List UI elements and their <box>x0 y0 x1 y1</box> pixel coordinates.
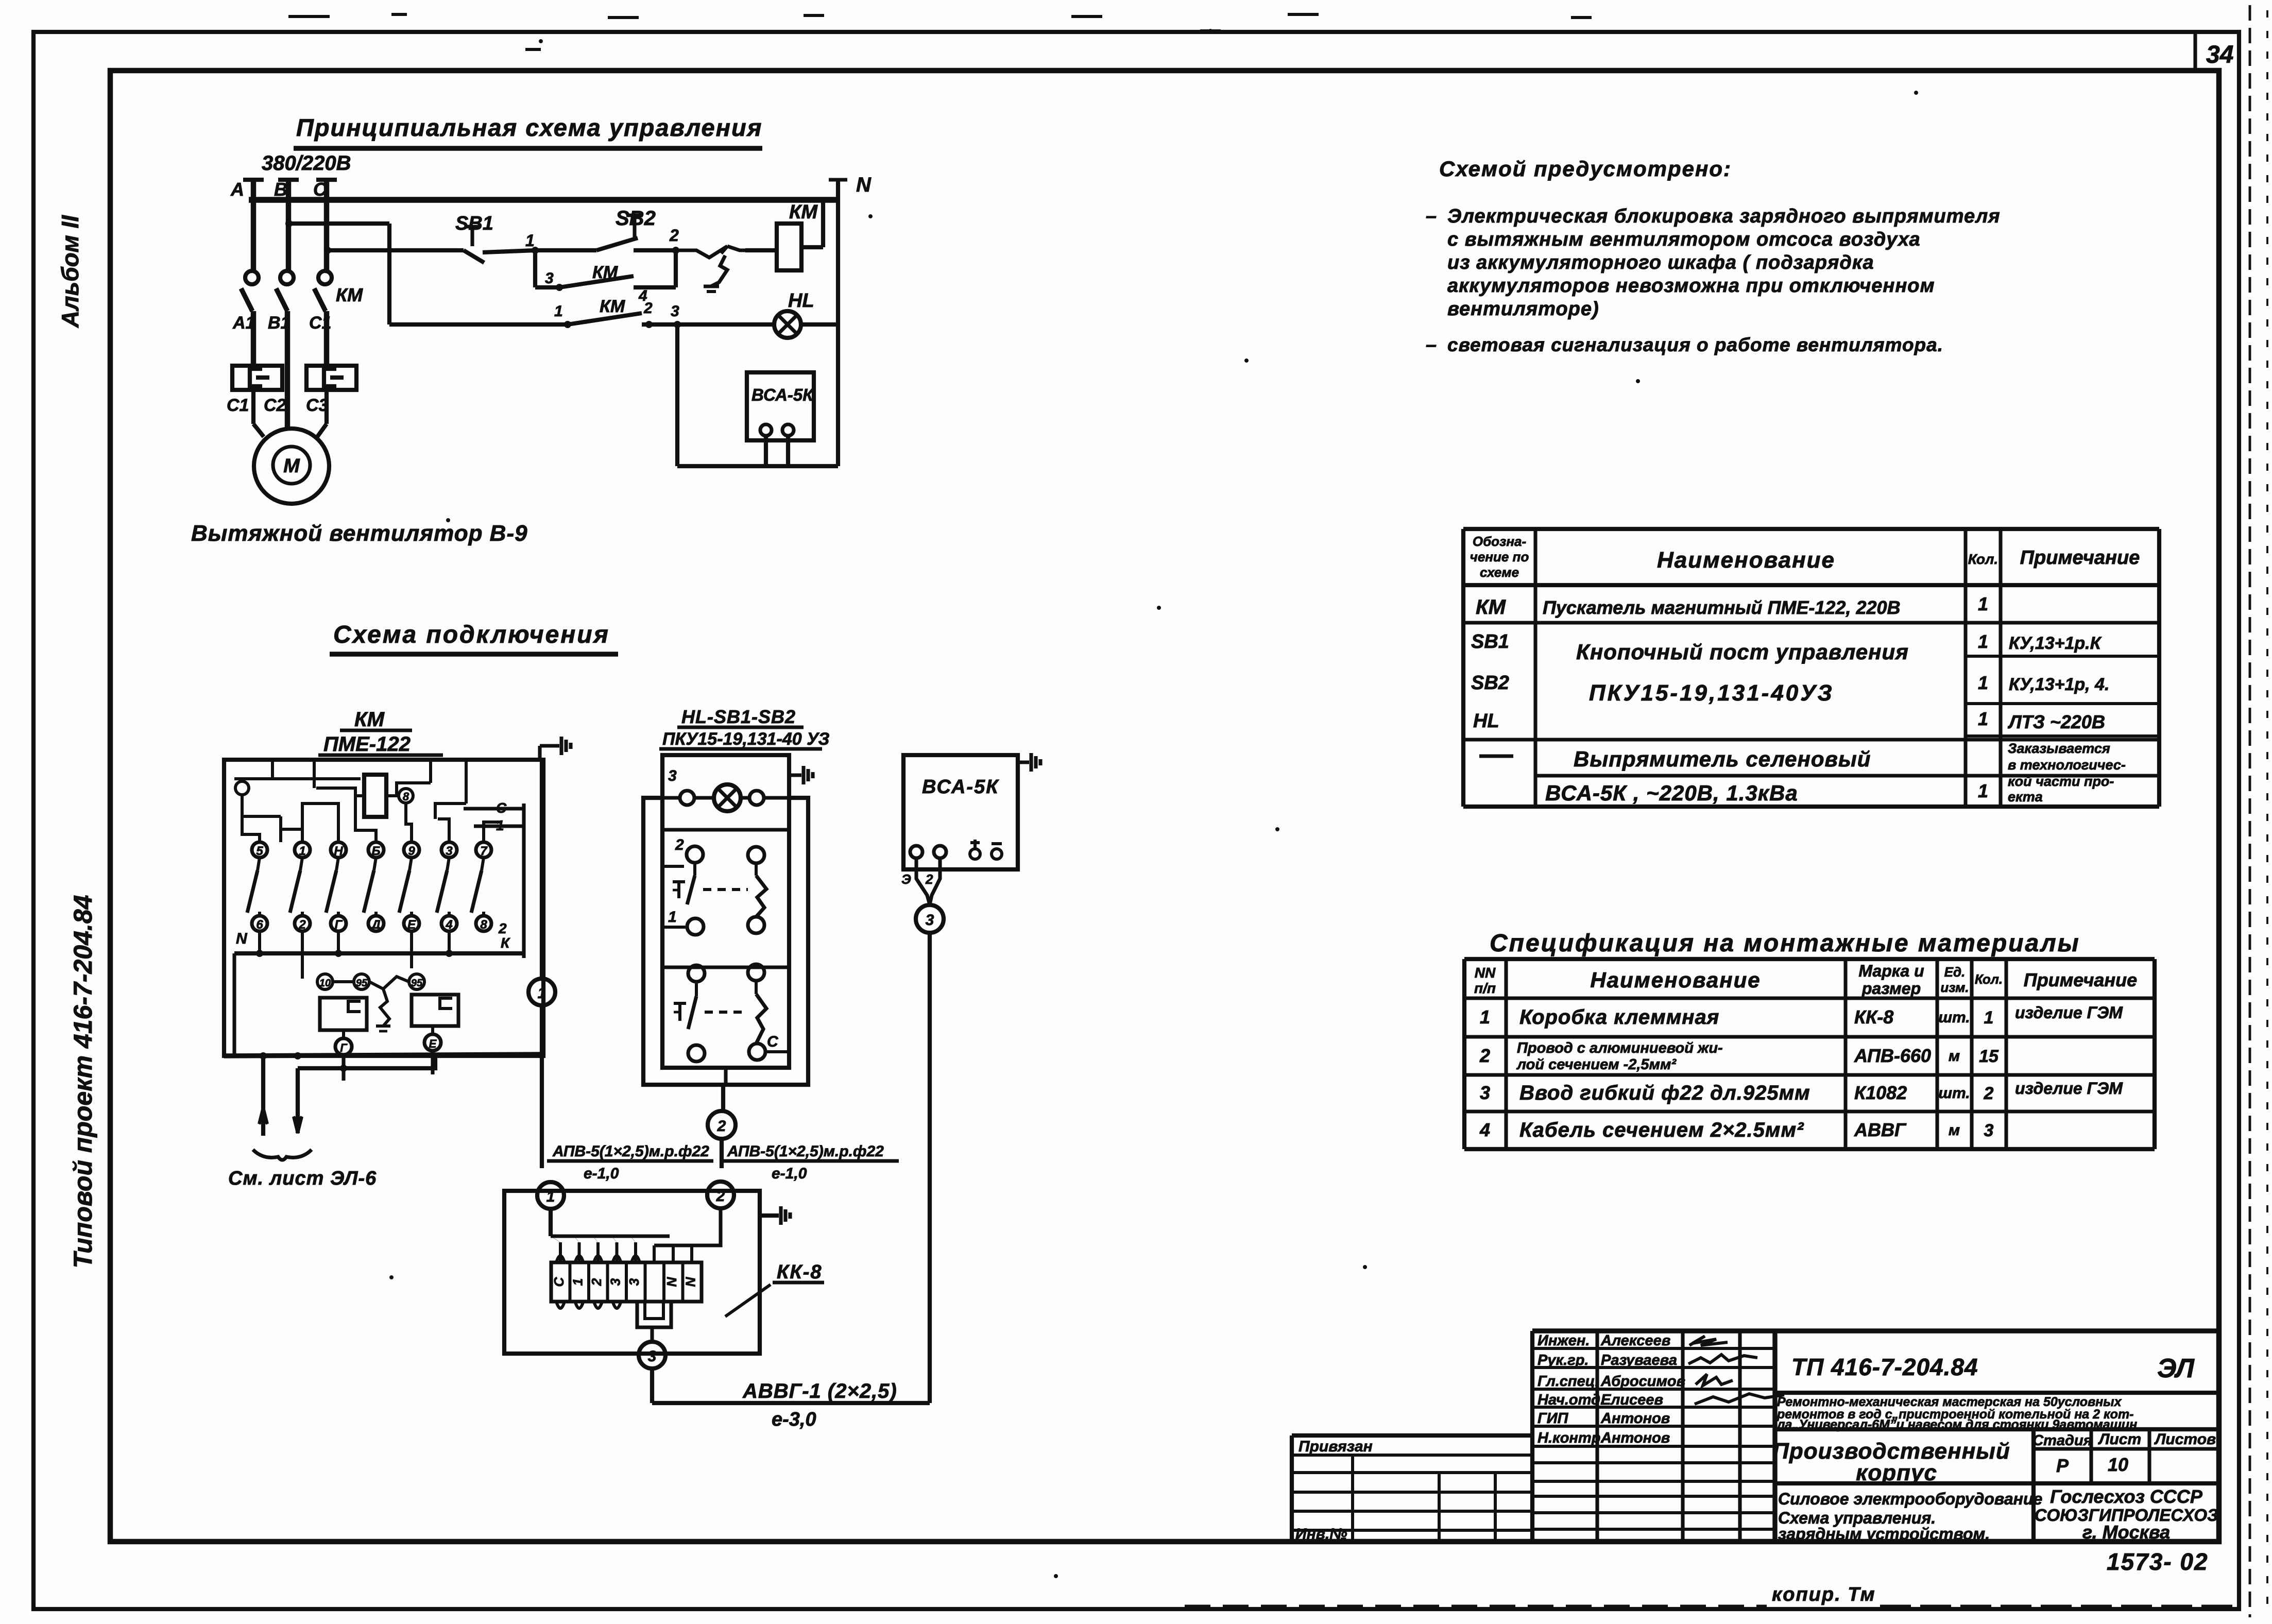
svg-text:Заказывается: Заказывается <box>2008 741 2110 756</box>
svg-text:Провод с алюминиевой жи-: Провод с алюминиевой жи- <box>1517 1040 1723 1056</box>
svg-text:изделие ГЭМ: изделие ГЭМ <box>2015 1003 2123 1022</box>
svg-text:ВСА-5К: ВСА-5К <box>922 776 999 798</box>
svg-text:Кнопочный пост управления: Кнопочный пост управления <box>1576 640 1909 664</box>
svg-text:ВСА-5К , ~220В, 1.3кВа: ВСА-5К , ~220В, 1.3кВа <box>1545 781 1798 805</box>
svg-text:N: N <box>856 174 872 196</box>
svg-text:Е: Е <box>429 1037 437 1050</box>
svg-text:3: 3 <box>926 912 934 929</box>
svg-text:SB1: SB1 <box>1471 631 1509 653</box>
svg-text:с вытяжным вентилятором отсо: с вытяжным вентилятором отсоса воздуха <box>1447 229 1921 250</box>
svg-text:К1082: К1082 <box>1854 1082 1907 1103</box>
svg-text:из аккумуляторного шкафа ( п: из аккумуляторного шкафа ( подзарядка <box>1447 252 1874 273</box>
svg-text:3: 3 <box>446 844 453 858</box>
svg-text:Примечание: Примечание <box>2020 547 2140 569</box>
svg-text:ПКУ15-19,131-40УЗ: ПКУ15-19,131-40УЗ <box>1589 680 1834 706</box>
svg-text:1: 1 <box>1978 780 1988 801</box>
svg-text:2: 2 <box>1984 1084 1994 1103</box>
svg-text:95: 95 <box>411 978 423 989</box>
svg-text:ТП 416-7-204.84: ТП 416-7-204.84 <box>1791 1354 1978 1380</box>
svg-text:аккумуляторов невозможна при: аккумуляторов невозможна при отключенном <box>1447 275 1935 297</box>
svg-text:Алексеев: Алексеев <box>1600 1332 1670 1349</box>
svg-text:2: 2 <box>589 1278 604 1286</box>
svg-text:С1: С1 <box>309 313 331 333</box>
svg-text:Инжен.: Инжен. <box>1538 1332 1590 1349</box>
svg-text:КК-8: КК-8 <box>777 1261 823 1283</box>
svg-text:1: 1 <box>525 231 535 250</box>
svg-text:HL-SB1-SB2: HL-SB1-SB2 <box>681 706 796 727</box>
svg-text:АПВ-5(1×2,5)м.р.ф22: АПВ-5(1×2,5)м.р.ф22 <box>552 1143 709 1160</box>
svg-text:г. Москва: г. Москва <box>2082 1522 2170 1543</box>
svg-text:Инв.№: Инв.№ <box>1295 1526 1347 1543</box>
svg-text:Альбом II: Альбом II <box>57 215 83 328</box>
svg-text:ПМЕ-122: ПМЕ-122 <box>323 733 411 756</box>
svg-text:Э: Э <box>901 871 911 887</box>
svg-text:ВСА-5К: ВСА-5К <box>751 385 814 404</box>
svg-text:N: N <box>683 1276 698 1287</box>
svg-text:SB1: SB1 <box>455 213 493 234</box>
svg-text:Выпрямитель селеновый: Выпрямитель селеновый <box>1574 747 1871 771</box>
svg-text:Обозна-: Обозна- <box>1473 534 1526 549</box>
svg-text:6: 6 <box>256 918 263 932</box>
svg-text:ПКУ15-19,131-40 УЗ: ПКУ15-19,131-40 УЗ <box>662 729 830 749</box>
svg-text:Наименование: Наименование <box>1657 548 1835 573</box>
svg-text:8: 8 <box>480 918 487 932</box>
svg-text:Кол.: Кол. <box>1968 551 1998 567</box>
svg-text:ла„Универсал-6М”и навесом для: ла„Универсал-6М”и навесом для стоянки 9а… <box>1776 1417 2137 1432</box>
svg-text:10: 10 <box>2108 1454 2128 1475</box>
svg-text:Р: Р <box>2056 1455 2069 1476</box>
svg-text:Примечание: Примечание <box>2024 969 2137 990</box>
svg-text:е-3,0: е-3,0 <box>772 1409 816 1430</box>
svg-text:ЭЛ: ЭЛ <box>2157 1354 2195 1383</box>
svg-text:Антонов: Антонов <box>1600 1410 1670 1427</box>
svg-text:Елисеев: Елисеев <box>1601 1392 1663 1408</box>
svg-text:Г: Г <box>340 1041 348 1054</box>
svg-text:1: 1 <box>1978 672 1988 693</box>
svg-text:2: 2 <box>298 918 306 932</box>
svg-text:Лист: Лист <box>2098 1431 2141 1448</box>
svg-text:95: 95 <box>356 978 368 989</box>
svg-text:Марка и: Марка и <box>1858 962 1924 980</box>
svg-text:в технологичес-: в технологичес- <box>2008 757 2126 773</box>
svg-text:С2: С2 <box>264 396 286 415</box>
svg-text:Наименование: Наименование <box>1590 968 1761 992</box>
svg-text:1: 1 <box>546 1188 555 1205</box>
svg-text:SB2: SB2 <box>1471 672 1509 694</box>
svg-text:м: м <box>1949 1122 1960 1139</box>
svg-text:Коробка клеммная: Коробка клеммная <box>1519 1006 1719 1029</box>
svg-text:АПВ-660: АПВ-660 <box>1854 1045 1931 1066</box>
svg-text:Д: Д <box>370 918 380 932</box>
svg-text:К: К <box>501 935 510 951</box>
svg-text:С: С <box>551 1276 567 1287</box>
svg-text:2: 2 <box>498 920 507 936</box>
svg-text:АПВ-5(1×2,5)м.р.ф22: АПВ-5(1×2,5)м.р.ф22 <box>727 1143 884 1160</box>
svg-text:3: 3 <box>648 1348 657 1365</box>
svg-text:N: N <box>236 930 248 947</box>
svg-text:1: 1 <box>554 303 563 320</box>
svg-text:Н.контр.: Н.контр. <box>1538 1430 1605 1446</box>
svg-text:3: 3 <box>1984 1121 1994 1140</box>
svg-text:См. лист ЭЛ-6: См. лист ЭЛ-6 <box>228 1168 377 1189</box>
svg-text:АВВГ: АВВГ <box>1854 1119 1907 1140</box>
svg-text:Типовой проект 416-7-204.84: Типовой проект 416-7-204.84 <box>69 895 97 1269</box>
svg-text:Нач.отд.: Нач.отд. <box>1538 1392 1604 1408</box>
svg-text:1: 1 <box>1978 593 1988 614</box>
svg-text:2: 2 <box>675 836 684 853</box>
svg-text:Привязан: Привязан <box>1299 1438 1373 1455</box>
svg-text:1: 1 <box>570 1278 586 1286</box>
svg-text:размер: размер <box>1861 979 1921 998</box>
svg-text:Абросимов: Абросимов <box>1600 1373 1685 1390</box>
svg-text:2: 2 <box>716 1188 725 1205</box>
svg-text:2: 2 <box>925 871 933 887</box>
svg-text:3: 3 <box>668 767 677 784</box>
svg-text:380/220В: 380/220В <box>262 152 351 175</box>
svg-text:3: 3 <box>545 270 554 287</box>
svg-text:КМ: КМ <box>1476 596 1507 619</box>
svg-text:С1: С1 <box>227 396 249 415</box>
svg-text:Кол.: Кол. <box>1975 971 2003 987</box>
svg-text:Ввод гибкий ф22 дл.925мм: Ввод гибкий ф22 дл.925мм <box>1519 1082 1810 1104</box>
svg-text:Пускатель магнитный ПМЕ-122, 2: Пускатель магнитный ПМЕ-122, 220В <box>1543 597 1901 618</box>
svg-text:1: 1 <box>299 844 305 858</box>
svg-text:КУ,13+1р.К: КУ,13+1р.К <box>2009 634 2102 653</box>
svg-text:е-1,0: е-1,0 <box>584 1165 619 1182</box>
svg-text:кой части про-: кой части про- <box>2008 774 2114 789</box>
svg-text:схеме: схеме <box>1480 565 1519 580</box>
svg-text:34: 34 <box>2206 41 2233 69</box>
svg-text:Вытяжной вентилятор В-9: Вытяжной вентилятор В-9 <box>191 521 528 546</box>
svg-text:В: В <box>274 179 287 200</box>
svg-text:АВВГ-1 (2×2,5): АВВГ-1 (2×2,5) <box>742 1380 897 1403</box>
svg-text:1: 1 <box>1480 1006 1490 1028</box>
svg-text:Стадия: Стадия <box>2032 1432 2092 1449</box>
svg-text:3: 3 <box>671 303 679 320</box>
svg-text:Гослесхоз СССР: Гослесхоз СССР <box>2050 1486 2203 1507</box>
svg-text:2: 2 <box>669 226 679 245</box>
svg-text:4: 4 <box>445 918 452 932</box>
svg-text:С: С <box>313 179 327 200</box>
svg-text:3: 3 <box>608 1278 623 1286</box>
svg-text:В1: В1 <box>268 313 290 333</box>
svg-text:е-1,0: е-1,0 <box>772 1165 807 1182</box>
svg-text:HL: HL <box>1473 710 1499 732</box>
svg-text:А1: А1 <box>232 313 255 333</box>
svg-text:Принципиальная схема управле: Принципиальная схема управления <box>296 114 762 141</box>
svg-text:м: м <box>1949 1048 1960 1065</box>
svg-text:Б: Б <box>372 844 381 858</box>
svg-text:1: 1 <box>1984 1008 1994 1028</box>
svg-text:Спецификация на монтажные м: Спецификация на монтажные материалы <box>1490 930 2080 957</box>
svg-text:1: 1 <box>668 909 677 926</box>
svg-text:КК-8: КК-8 <box>1854 1006 1893 1028</box>
svg-text:5: 5 <box>256 844 263 858</box>
svg-text:Разуваева: Разуваева <box>1601 1352 1677 1369</box>
svg-text:С3: С3 <box>306 396 329 415</box>
svg-text:10: 10 <box>319 978 331 989</box>
svg-text:КМ: КМ <box>354 708 385 731</box>
svg-text:–: – <box>1426 334 1437 356</box>
svg-text:световая сигнализация о раб: световая сигнализация о работе вентилято… <box>1447 334 1943 355</box>
svg-text:2: 2 <box>717 1118 726 1135</box>
svg-text:2: 2 <box>1479 1045 1490 1066</box>
svg-text:Листов: Листов <box>2154 1431 2216 1448</box>
svg-text:чение по: чение по <box>1470 549 1529 565</box>
svg-text:корпус: корпус <box>1856 1460 1937 1485</box>
svg-text:1: 1 <box>1978 708 1988 729</box>
svg-text:зарядным устройством.: зарядным устройством. <box>1778 1525 1990 1543</box>
svg-text:Е: Е <box>407 918 416 932</box>
svg-text:изделие ГЭМ: изделие ГЭМ <box>2015 1079 2123 1098</box>
svg-text:лой сечением -2,5мм²: лой сечением -2,5мм² <box>1516 1056 1677 1073</box>
svg-text:ГИП: ГИП <box>1538 1410 1569 1427</box>
svg-text:1: 1 <box>1978 631 1988 652</box>
svg-text:Схемой предусмотрено:: Схемой предусмотрено: <box>1439 157 1732 181</box>
svg-text:п/п: п/п <box>1474 980 1496 996</box>
svg-text:Г: Г <box>335 918 343 932</box>
svg-text:Схема подключения: Схема подключения <box>333 621 610 648</box>
svg-text:Антонов: Антонов <box>1600 1430 1670 1446</box>
svg-text:С: С <box>767 1033 779 1050</box>
svg-text:N: N <box>664 1276 679 1287</box>
svg-text:7: 7 <box>480 844 488 858</box>
svg-text:Ед.: Ед. <box>1944 964 1966 980</box>
svg-text:КМ: КМ <box>600 297 625 316</box>
svg-text:8: 8 <box>403 790 409 803</box>
svg-text:15: 15 <box>1979 1047 1999 1066</box>
svg-text:NN: NN <box>1475 965 1496 981</box>
svg-text:копир. Тм: копир. Тм <box>1772 1584 1876 1605</box>
svg-text:1: 1 <box>538 985 546 1002</box>
svg-text:–: – <box>1426 206 1437 227</box>
svg-text:Гл.спец.: Гл.спец. <box>1538 1373 1599 1390</box>
svg-text:ЛТЗ ~220В: ЛТЗ ~220В <box>2007 711 2105 732</box>
svg-text:3: 3 <box>626 1278 642 1286</box>
svg-text:3: 3 <box>1480 1082 1490 1103</box>
svg-text:КМ: КМ <box>789 201 818 223</box>
svg-text:9: 9 <box>408 844 415 858</box>
svg-text:шт.: шт. <box>1938 1009 1970 1026</box>
svg-text:Рук.гр.: Рук.гр. <box>1538 1352 1588 1369</box>
svg-text:изм.: изм. <box>1940 980 1969 995</box>
svg-text:М: М <box>283 455 300 477</box>
svg-text:Н: Н <box>334 844 343 858</box>
svg-text:екта: екта <box>2008 789 2043 805</box>
svg-text:Электрическая блокировка зар: Электрическая блокировка зарядного выпря… <box>1447 206 2001 227</box>
svg-text:Кабель сечением 2×2.5мм²: Кабель сечением 2×2.5мм² <box>1519 1119 1804 1141</box>
svg-text:2: 2 <box>643 300 653 317</box>
svg-text:1573- 02: 1573- 02 <box>2107 1548 2209 1575</box>
svg-text:КУ,13+1р, 4.: КУ,13+1р, 4. <box>2009 675 2109 694</box>
svg-text:Силовое электрооборудование: Силовое электрооборудование <box>1778 1490 2042 1508</box>
svg-text:КМ: КМ <box>336 284 363 305</box>
svg-text:HL: HL <box>788 290 814 312</box>
svg-text:шт.: шт. <box>1938 1085 1970 1102</box>
svg-text:А: А <box>230 179 244 200</box>
svg-text:вентиляторе): вентиляторе) <box>1447 298 1599 320</box>
svg-text:4: 4 <box>1479 1119 1490 1140</box>
